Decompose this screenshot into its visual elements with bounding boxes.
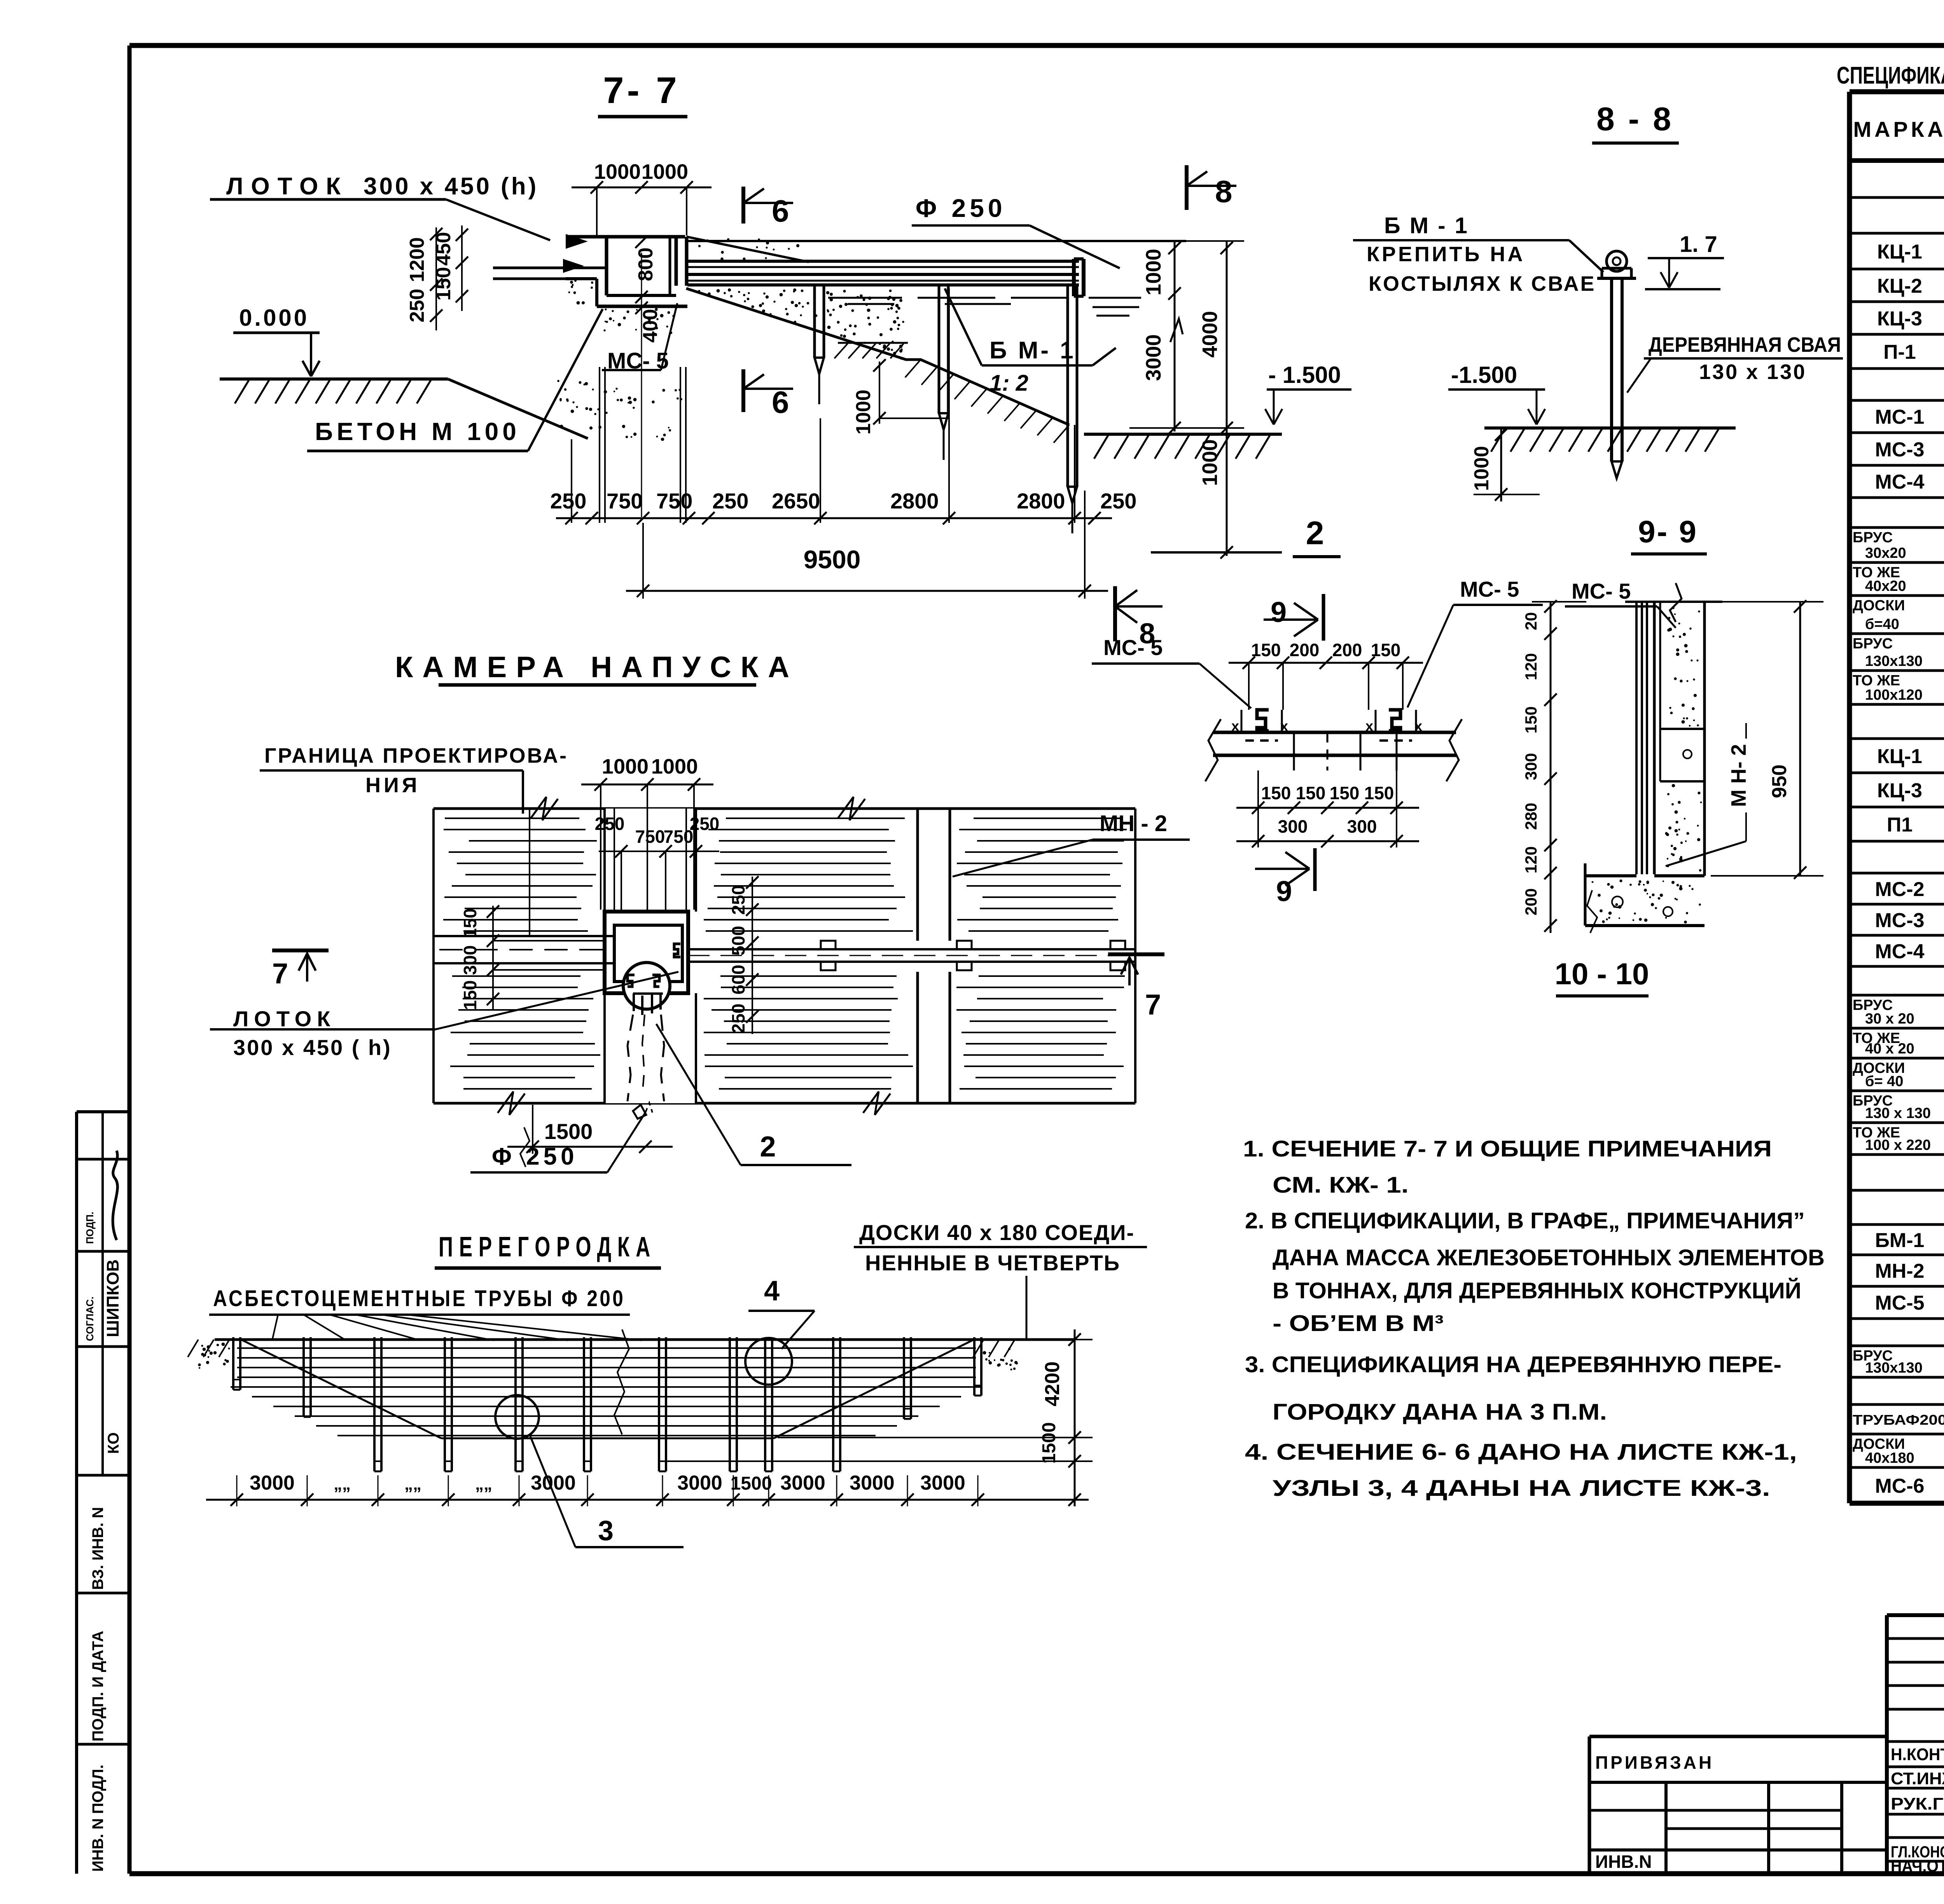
extension lines down from well (599, 367, 600, 523)
svg-text:8: 8 (1215, 174, 1232, 209)
svg-text:100 х 220: 100 х 220 (1865, 1137, 1931, 1153)
svg-text:БМ-1: БМ-1 (1875, 1229, 1925, 1252)
svg-text:1000: 1000 (602, 755, 649, 778)
pipe into chamber left (434, 935, 614, 937)
svg-text:Б М - 1: Б М - 1 (1384, 213, 1469, 238)
svg-text:- ОБʼЕМ В М³: - ОБʼЕМ В М³ (1273, 1311, 1444, 1336)
bottom concrete footing 10-10 (1585, 874, 1636, 877)
svg-text:9: 9 (1271, 596, 1287, 628)
svg-text:НИЯ: НИЯ (365, 774, 420, 797)
svg-text:ЛОТОК: ЛОТОК (226, 173, 348, 200)
svg-text:250: 250 (728, 885, 748, 915)
svg-text:400: 400 (639, 309, 662, 343)
svg-text:1000: 1000 (1470, 446, 1493, 491)
svg-text:МН-2: МН-2 (1875, 1260, 1924, 1282)
svg-text:3000: 3000 (250, 1472, 295, 1494)
svg-text:2650: 2650 (772, 489, 820, 513)
embankment slope right of well (687, 237, 809, 262)
svg-text:1200: 1200 (406, 237, 428, 282)
svg-text:КО: КО (105, 1432, 122, 1454)
plan outline (434, 807, 1135, 810)
svg-text:20: 20 (1522, 612, 1540, 631)
svg-text:150: 150 (1296, 783, 1326, 803)
svg-text:300: 300 (460, 945, 480, 975)
svg-text:6: 6 (772, 385, 789, 419)
svg-text:Б М- 1: Б М- 1 (989, 337, 1076, 364)
inflow channel lotok (493, 267, 607, 269)
svg-text:150: 150 (1371, 640, 1401, 660)
svg-text:250: 250 (1100, 489, 1136, 513)
svg-text:1: 2: 1: 2 (989, 370, 1028, 396)
svg-text:КЦ-2: КЦ-2 (1877, 275, 1922, 297)
svg-text:-1.500: -1.500 (1451, 362, 1517, 388)
svg-text:КОСТЫЛЯХ К СВАЕ: КОСТЫЛЯХ К СВАЕ (1369, 272, 1596, 295)
svg-text:600: 600 (728, 965, 748, 995)
section marker 8 top of 7-7 (1185, 165, 1189, 210)
left stamp strip (77, 1110, 129, 1113)
ground dots at band ends (198, 1363, 201, 1366)
pipe out right dashed (688, 948, 1135, 950)
section 7 marker left (272, 949, 329, 952)
svg-text:300 х 450 (h): 300 х 450 (h) (364, 173, 538, 200)
svg-text:КРЕПИТЬ НА: КРЕПИТЬ НА (1367, 243, 1525, 266)
svg-text:МС- 5: МС- 5 (1572, 579, 1631, 603)
svg-text:1500: 1500 (731, 1473, 772, 1494)
svg-text:3000: 3000 (850, 1472, 895, 1494)
svg-text:х: х (1414, 718, 1422, 734)
break mark center of band (614, 1329, 629, 1434)
svg-text:130 х 130: 130 х 130 (1699, 360, 1806, 384)
svg-text:4000: 4000 (1198, 311, 1222, 358)
svg-text:280: 280 (1522, 803, 1540, 830)
svg-text:7: 7 (272, 957, 288, 990)
svg-text:250: 250 (728, 1004, 748, 1034)
lower ground right with hatching (1084, 433, 1282, 436)
dim 950 rotated (1799, 602, 1801, 876)
svg-text:КЦ-3: КЦ-3 (1877, 307, 1922, 330)
svg-text:ПЕРЕГОРОДКА: ПЕРЕГОРОДКА (439, 1231, 656, 1263)
svg-text:7: 7 (1145, 989, 1161, 1021)
svg-text:х: х (1280, 718, 1288, 734)
svg-text:6: 6 (772, 194, 789, 228)
sand dots under deck (wedge above slope) (759, 304, 762, 307)
svg-text:150: 150 (432, 267, 455, 301)
svg-text:КЦ-1: КЦ-1 (1877, 745, 1922, 768)
svg-text:10 - 10: 10 - 10 (1555, 957, 1649, 991)
svg-text:9: 9 (1276, 875, 1292, 907)
partition band of boards (215, 1338, 1074, 1341)
svg-text:4: 4 (764, 1275, 780, 1307)
beam BM-1 cap (1607, 251, 1627, 271)
svg-text:150: 150 (460, 908, 480, 938)
section marker 6 lower (741, 369, 745, 412)
svg-text:БРУС: БРУС (1853, 636, 1893, 652)
svg-text:В ТОННАХ, ДЛЯ ДЕРЕВЯННЫХ КОНСТ: В ТОННАХ, ДЛЯ ДЕРЕВЯННЫХ КОНСТРУКЦИЙ (1273, 1278, 1801, 1303)
svg-text:1. СЕЧЕНИЕ 7- 7 И ОБЩИЕ ПРИ: 1. СЕЧЕНИЕ 7- 7 И ОБЩИЕ ПРИМЕЧАНИЯ (1243, 1136, 1772, 1162)
section marker 6 upper (741, 187, 745, 224)
svg-text:7- 7: 7- 7 (603, 70, 680, 111)
svg-text:ИНВ. N ПОДЛ.: ИНВ. N ПОДЛ. (89, 1764, 107, 1872)
svg-text:2. В СПЕЦИФИКАЦИИ, В ГРАФЕ„ П: 2. В СПЕЦИФИКАЦИИ, В ГРАФЕ„ ПРИМЕЧАНИЯ” (1245, 1208, 1805, 1233)
svg-text:300: 300 (1278, 816, 1308, 837)
hatch at bench (834, 344, 848, 358)
svg-text:150: 150 (460, 980, 480, 1010)
svg-text:200: 200 (1290, 640, 1320, 660)
svg-text:НЕННЫЕ В ЧЕТВЕРТЬ: НЕННЫЕ В ЧЕТВЕРТЬ (865, 1251, 1120, 1275)
svg-text:СМ. КЖ- 1.: СМ. КЖ- 1. (1273, 1172, 1409, 1198)
deck with pipe F250 (687, 260, 1079, 263)
svg-text:МС-4: МС-4 (1875, 940, 1924, 963)
svg-text:КАМЕРА НАПУСКА: КАМЕРА НАПУСКА (395, 651, 799, 684)
svg-text:МС-4: МС-4 (1875, 471, 1924, 493)
svg-text:8: 8 (1139, 617, 1155, 650)
svg-text:9- 9: 9- 9 (1638, 514, 1698, 549)
svg-text:500: 500 (728, 926, 748, 956)
canal walls vertical (603, 809, 606, 912)
svg-text:МС-2: МС-2 (1875, 878, 1924, 901)
svg-text:3: 3 (598, 1515, 614, 1546)
svg-text:800: 800 (635, 248, 657, 281)
svg-text:2: 2 (760, 1130, 776, 1163)
svg-text:б=40: б=40 (1865, 616, 1899, 632)
svg-text:2: 2 (1306, 515, 1324, 551)
right vertical dims of 7-7 (1174, 240, 1176, 431)
svg-text:ВЗ. ИНВ. N: ВЗ. ИНВ. N (89, 1507, 107, 1590)
svg-text:3. СПЕЦИФИКАЦИЯ НА ДЕРЕВЯННУ: 3. СПЕЦИФИКАЦИЯ НА ДЕРЕВЯННУЮ ПЕРЕ- (1245, 1352, 1781, 1377)
dims above section 2 (1229, 662, 1423, 664)
svg-text:Φ 250: Φ 250 (916, 194, 1006, 222)
svg-text:30 х 20: 30 х 20 (1865, 1011, 1914, 1027)
svg-text:х: х (1231, 718, 1239, 734)
svg-text:- 1.500: - 1.500 (1268, 362, 1341, 388)
dim 9500 (626, 590, 1108, 592)
svg-text:30х20: 30х20 (1865, 545, 1906, 561)
svg-text:1500: 1500 (544, 1119, 593, 1144)
svg-text:120: 120 (1522, 846, 1540, 873)
white mask for pipe corridor and chamber (435, 932, 1133, 967)
concrete bed dots (626, 310, 629, 313)
svg-text:ТРУБАФ200: ТРУБАФ200 (1853, 1412, 1944, 1428)
svg-text:МС-6: МС-6 (1875, 1475, 1924, 1497)
svg-text:МАРКА: МАРКА (1853, 117, 1944, 141)
svg-text:ДОСКИ 40 х 180 СОЕДИ-: ДОСКИ 40 х 180 СОЕДИ- (859, 1220, 1135, 1245)
detail circles 3 and 4 (495, 1395, 539, 1439)
svg-text:3000: 3000 (1142, 334, 1165, 381)
svg-text:2800: 2800 (1017, 489, 1065, 513)
svg-text:1000: 1000 (852, 390, 875, 435)
svg-text:300: 300 (1347, 816, 1377, 837)
svg-text:МС- 5: МС- 5 (1460, 577, 1519, 601)
svg-text:Н.КОНТР.: Н.КОНТР. (1891, 1745, 1944, 1764)
break marks on plan edges (531, 797, 558, 820)
svg-text:3000: 3000 (920, 1472, 965, 1494)
chamber box (605, 912, 688, 993)
svg-text:1000: 1000 (651, 755, 698, 778)
svg-text:9500: 9500 (804, 545, 861, 574)
svg-text:150: 150 (1261, 783, 1291, 803)
svg-text:БЕТОН М 100: БЕТОН М 100 (315, 417, 520, 445)
svg-text:130х130: 130х130 (1865, 653, 1923, 669)
svg-text:МС-1: МС-1 (1875, 406, 1924, 428)
svg-text:200: 200 (1522, 888, 1540, 915)
svg-text:130х130: 130х130 (1865, 1360, 1923, 1376)
svg-text:БРУС: БРУС (1853, 529, 1893, 546)
svg-text:1000: 1000 (642, 160, 688, 183)
svg-text:150: 150 (1251, 640, 1281, 660)
embankment top line (687, 240, 1186, 242)
svg-text:250: 250 (550, 489, 586, 513)
slope with benches (686, 288, 1069, 425)
slope edges of band (241, 1340, 441, 1438)
dims below section 2 (1236, 807, 1419, 809)
svg-text:300 х 450 ( h): 300 х 450 ( h) (233, 1035, 392, 1060)
svg-text:150: 150 (1522, 706, 1540, 734)
svg-text:ДАНА МАССА ЖЕЛЕЗОБЕТОННЫХ ЭЛЕМ: ДАНА МАССА ЖЕЛЕЗОБЕТОННЫХ ЭЛЕМЕНТОВ (1273, 1245, 1825, 1270)
svg-text:ИНВ.N: ИНВ.N (1595, 1852, 1652, 1872)
svg-text:МС-3: МС-3 (1875, 438, 1924, 461)
excavation slope line (448, 379, 588, 438)
svg-text:П-1: П-1 (1883, 341, 1916, 363)
svg-text:СТ.ИНЖ.: СТ.ИНЖ. (1891, 1769, 1944, 1788)
svg-text:ДЕРЕВЯННАЯ СВАЯ: ДЕРЕВЯННАЯ СВАЯ (1649, 333, 1841, 356)
well (kamera napuska) cross-section (566, 235, 685, 239)
water level lines (828, 297, 902, 299)
svg-text:750: 750 (656, 489, 692, 513)
pond hatch lines (445, 817, 579, 819)
svg-text:1. 7: 1. 7 (1680, 232, 1717, 257)
svg-text:СОГЛАС.: СОГЛАС. (84, 1296, 96, 1341)
svg-text:П1: П1 (1887, 814, 1913, 836)
svg-text:КЦ-3: КЦ-3 (1877, 779, 1922, 802)
svg-text:х: х (1365, 718, 1373, 734)
svg-text:150: 150 (1330, 783, 1360, 803)
svg-text:РУК.ГР.: РУК.ГР. (1891, 1794, 1944, 1813)
title block: privyazan table (1589, 1735, 1887, 1738)
svg-text:б= 40: б= 40 (1865, 1073, 1904, 1090)
svg-text:40х180: 40х180 (1865, 1450, 1914, 1466)
svg-text:120: 120 (1522, 653, 1540, 680)
svg-text:МС-5: МС-5 (1875, 1292, 1924, 1314)
svg-text:250: 250 (406, 289, 428, 323)
wooden pile 130x130 (1610, 278, 1613, 461)
svg-text:1000: 1000 (1198, 439, 1222, 486)
left dim chain 9-9 (1550, 602, 1552, 933)
svg-text:ПРИВЯЗАН: ПРИВЯЗАН (1595, 1752, 1714, 1773)
title block: signature stamp table (1887, 1613, 1944, 1617)
granitsa boundary line inside plan (529, 809, 530, 936)
section 7 marker right (1108, 952, 1164, 956)
svg-text:ТО ЖЕ: ТО ЖЕ (1853, 673, 1900, 689)
centerline of well (641, 253, 642, 517)
svg-text:„„: „„ (404, 1474, 421, 1494)
svg-text:250: 250 (690, 814, 720, 834)
ground line left with hatching (220, 377, 448, 381)
svg-text:8 - 8: 8 - 8 (1596, 101, 1673, 137)
piles under deck (813, 286, 816, 358)
dashed outflow below chamber (628, 1015, 633, 1101)
ground line 8-8 with hatch (1484, 426, 1736, 430)
svg-text:130 х 130: 130 х 130 (1865, 1105, 1931, 1121)
svg-text:СПЕЦИФИКАЦИЯ ЭЛЕМЕНТОВ К МАРКИ: СПЕЦИФИКАЦИЯ ЭЛЕМЕНТОВ К МАРКИРОВОЧНЫМ С… (1837, 62, 1944, 89)
svg-text:750: 750 (607, 489, 643, 513)
svg-text:УЗЛЫ 3, 4 ДАНЫ НА ЛИСТЕ КЖ: УЗЛЫ 3, 4 ДАНЫ НА ЛИСТЕ КЖ-3. (1273, 1476, 1770, 1501)
posts of partition (232, 1337, 234, 1390)
svg-text:40 х 20: 40 х 20 (1865, 1041, 1914, 1057)
MN-2 clips on pipe (821, 941, 836, 949)
svg-text:М Н- 2: М Н- 2 (1727, 744, 1750, 807)
svg-text:Φ 250: Φ 250 (492, 1143, 578, 1170)
svg-text:ГРАНИЦА ПРОЕКТИРОВА-: ГРАНИЦА ПРОЕКТИРОВА- (264, 744, 568, 767)
svg-text:4. СЕЧЕНИЕ 6- 6 ДАНО НА Л: 4. СЕЧЕНИЕ 6- 6 ДАНО НА ЛИСТЕ КЖ-1, (1245, 1439, 1797, 1465)
svg-text:1000: 1000 (1142, 249, 1165, 295)
svg-text:1000: 1000 (594, 160, 641, 183)
MS-5 clips on strip (1257, 710, 1269, 731)
svg-text:3000: 3000 (780, 1472, 825, 1494)
svg-text:100х120: 100х120 (1865, 687, 1923, 703)
chamber circle (623, 962, 670, 1009)
svg-text:ЛОТОК: ЛОТОК (233, 1006, 336, 1031)
svg-text:40х20: 40х20 (1865, 578, 1906, 594)
svg-text:2800: 2800 (890, 489, 939, 513)
svg-text:МН - 2: МН - 2 (1100, 811, 1167, 836)
dim 1000 below ground 8-8 (1500, 428, 1502, 501)
svg-text:НАЧ.ОТД.: НАЧ.ОТД. (1891, 1857, 1944, 1876)
svg-text:АСБЕСТОЦЕМЕНТНЫЕ ТРУБЫ Φ 200: АСБЕСТОЦЕМЕНТНЫЕ ТРУБЫ Φ 200 (213, 1286, 625, 1311)
svg-text:150: 150 (1364, 783, 1394, 803)
signature in strip (113, 1151, 117, 1240)
svg-text:ШИПКОВ: ШИПКОВ (103, 1259, 122, 1337)
sheet border frame (129, 43, 1944, 48)
svg-text:4200: 4200 (1041, 1361, 1064, 1406)
svg-text:450: 450 (432, 232, 455, 266)
dim line below peregorodka (206, 1499, 1089, 1501)
svg-text:ДОСКИ: ДОСКИ (1853, 597, 1905, 614)
bottom dims row 250 750 750 250 2650 2800 2800 250 (556, 517, 1112, 519)
break mark top 9-9 (1670, 583, 1682, 622)
svg-text:750: 750 (664, 826, 694, 847)
right dims 4200 1500 rotated (1074, 1329, 1076, 1506)
svg-text:ПОДП.: ПОДП. (84, 1212, 96, 1244)
svg-text:„„: „„ (475, 1474, 492, 1494)
9-9 wall: boards + concrete (1635, 602, 1638, 874)
svg-text:ГОРОДКУ ДАНА НА 3 П.М.: ГОРОДКУ ДАНА НА 3 П.М. (1273, 1399, 1607, 1425)
svg-text:250: 250 (712, 489, 748, 513)
svg-text:300: 300 (1522, 753, 1540, 780)
svg-text:750: 750 (635, 826, 665, 847)
svg-text:3000: 3000 (677, 1472, 722, 1494)
svg-text:1500: 1500 (1039, 1422, 1059, 1464)
svg-text:0.000: 0.000 (239, 305, 309, 331)
svg-text:3000: 3000 (531, 1472, 576, 1494)
svg-text:250: 250 (595, 814, 625, 834)
svg-text:КЦ-1: КЦ-1 (1877, 241, 1922, 263)
svg-text:„„: „„ (334, 1474, 351, 1494)
svg-text:ПОДП. И ДАТА: ПОДП. И ДАТА (89, 1631, 107, 1742)
svg-text:МС-3: МС-3 (1875, 909, 1924, 932)
partition band in plan (916, 809, 919, 941)
svg-text:200: 200 (1332, 640, 1362, 660)
svg-text:950: 950 (1768, 765, 1791, 798)
section 2 plan strip (1213, 731, 1456, 734)
section 8 marker above plan (1113, 586, 1117, 641)
